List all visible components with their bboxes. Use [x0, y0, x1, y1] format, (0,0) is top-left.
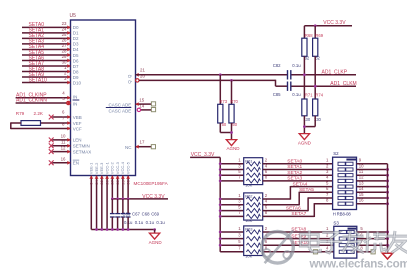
- pin 5 number (S2): [326, 180, 329, 185]
- pin 5 number (R63): [238, 239, 241, 244]
- pin 6 number (R63): [265, 239, 268, 244]
- pin VCC-3 name: [115, 161, 120, 174]
- wire S3 pin 6 to gnd bus: [357, 238, 388, 240]
- capacitor C85 label: [273, 92, 281, 97]
- svg-text:AGND: AGND: [298, 141, 312, 146]
- svg-text:NC: NC: [125, 145, 132, 150]
- pin 26 number (D3): [62, 38, 67, 43]
- pin 1 number (S2): [326, 158, 329, 163]
- pin 1 number (R61): [238, 158, 241, 163]
- junction VCC feed R62 p3: [219, 203, 222, 206]
- no-connect square (row4 left): [313, 250, 317, 254]
- pin 29 number: [120, 179, 125, 184]
- pin 14 CASCADE stub: [141, 109, 152, 111]
- pin 5 number (R61): [238, 169, 241, 174]
- wire VCC to R62 pin 5: [220, 210, 244, 212]
- resistor R73: [218, 104, 223, 123]
- svg-text:R68: R68: [305, 33, 313, 38]
- capacitor C85 value: [292, 92, 301, 97]
- op-amp U5 reference label: [70, 13, 77, 19]
- pin IN name: [73, 94, 78, 99]
- wire SETA1 to S2: [263, 169, 333, 171]
- svg-text:SETA5: SETA5: [299, 187, 314, 193]
- wire SETA4 staircase: [263, 186, 333, 200]
- resistor R74 label: [315, 93, 323, 98]
- wire SETA8 to S3: [263, 231, 334, 233]
- wire SETA10 net: [22, 82, 71, 84]
- svg-text:12: 12: [359, 175, 364, 180]
- pin 16 number: [61, 157, 66, 162]
- pin D1 marker: [67, 31, 70, 35]
- junction ground rail 2: [100, 228, 103, 231]
- junction VCC feed R62 p1: [219, 198, 222, 201]
- pin 16 number (S2): [359, 198, 364, 203]
- svg-text:R61: R61: [245, 158, 253, 163]
- wire VCC to R61 pin 7: [220, 180, 244, 182]
- svg-text:27: 27: [110, 179, 115, 184]
- svg-text:10K: 10K: [245, 218, 252, 223]
- svg-text:AD1_CLKM: AD1_CLKM: [330, 81, 356, 87]
- capacitor C68 label: [142, 211, 150, 216]
- node SETA3 label (S2): [287, 176, 302, 182]
- pin D7 name: [73, 64, 79, 69]
- pin Q name: [127, 74, 132, 78]
- wire VCC to R63 pin 5: [220, 244, 244, 246]
- pin 4 number (R62): [265, 199, 268, 204]
- pin Q marker: [136, 73, 139, 77]
- wire SETA1 net: [22, 32, 71, 34]
- svg-text:SETA4: SETA4: [293, 181, 308, 187]
- wire bottom pin VEE-2: [96, 176, 98, 230]
- junction gnd bus S3 p7: [386, 244, 389, 247]
- pin 11 SETMIN stub: [52, 145, 70, 147]
- svg-text:SETA6: SETA6: [286, 205, 301, 211]
- junction ground rail 7: [127, 228, 130, 231]
- pin 27 number: [110, 179, 115, 184]
- pin VCF marker: [67, 127, 70, 131]
- svg-text:D8: D8: [73, 69, 79, 74]
- pin 6 number (S3): [360, 232, 363, 237]
- pin 11 number (S2): [359, 169, 364, 174]
- ground AGND (R71/R74): [299, 134, 309, 140]
- pin 10 LEN stub: [52, 139, 70, 141]
- node AD1_CLKP label: [322, 69, 348, 75]
- pin 26 number: [104, 179, 109, 184]
- svg-text:29: 29: [120, 179, 125, 184]
- svg-text:28: 28: [62, 49, 67, 54]
- svg-text:R62: R62: [245, 194, 253, 199]
- pin 6 number (S2): [326, 186, 329, 191]
- pin 24 number: [94, 179, 99, 184]
- pin 29 number (D6): [62, 54, 67, 59]
- pin D4 marker: [67, 48, 70, 52]
- pin VCC-1 name: [104, 161, 109, 174]
- pin 3 number (R61): [238, 163, 241, 168]
- svg-text:S2: S2: [333, 151, 339, 156]
- resistor network R62 value: [245, 218, 252, 223]
- resistor R73 label: [219, 99, 227, 104]
- junction gnd bus S3 p5: [386, 231, 389, 234]
- svg-text:VBB: VBB: [73, 115, 82, 120]
- node SETA6 label: [29, 55, 45, 61]
- pin 13 number (S2): [359, 180, 364, 185]
- pin SETMAX name: [73, 149, 92, 154]
- svg-text:VCF: VCF: [73, 127, 82, 132]
- svg-text:EN: EN: [73, 161, 79, 166]
- junction gnd bus S2 p14: [386, 191, 389, 194]
- svg-text:CASC ADE: CASC ADE: [109, 102, 132, 107]
- wire R68-R71 column: [303, 56, 305, 99]
- resistor network R63 label: [245, 227, 253, 232]
- wire bottom pin VCC-5: [127, 176, 129, 199]
- pin D6 name: [73, 58, 79, 63]
- ground AGND label (R73/R70): [227, 146, 241, 151]
- junction VCC rail 4: [111, 198, 114, 201]
- junction CLKM column B: [314, 85, 317, 88]
- resistor R70: [229, 104, 234, 123]
- capacitor C67 value: [135, 220, 144, 225]
- svg-text:28: 28: [115, 179, 120, 184]
- pin 10 number (S2): [359, 163, 364, 168]
- junction VCC feed R63 p3: [219, 237, 222, 240]
- pin 4 number (R61): [265, 163, 268, 168]
- pin 3 number (S3): [326, 239, 329, 244]
- svg-text:AGND: AGND: [227, 146, 241, 151]
- node SETA2 label (S2): [287, 170, 302, 176]
- pin 30 number: [126, 179, 131, 184]
- pin 9 number: [89, 182, 94, 185]
- wire AD1_CLKP after C82: [292, 74, 357, 76]
- wire AD1_CLKP from pin 21 to C82: [136, 74, 288, 76]
- pin 25 number: [99, 179, 104, 184]
- svg-text:R71: R71: [305, 93, 313, 98]
- pin 5 number: [62, 96, 65, 101]
- wire S2 pin 9 to gnd bus: [357, 163, 388, 165]
- pin VEE-3 marker: [100, 176, 104, 179]
- wire SETA7 staircase: [263, 203, 333, 217]
- wire ground bus: [387, 164, 389, 253]
- node SETA6 label: [286, 205, 301, 211]
- ground AGND (R73/R70): [226, 140, 236, 146]
- svg-text:82: 82: [305, 55, 310, 60]
- ground AGND label (chip): [149, 240, 163, 245]
- resistor R74: [313, 99, 318, 116]
- decorative watermark: [262, 230, 407, 270]
- ground GND (bus): [382, 253, 392, 259]
- pin NC marker: [136, 145, 139, 149]
- node SETA0 label: [29, 22, 45, 28]
- wire AD1_CLKM after C85: [292, 85, 357, 87]
- junction ground rail agnd: [153, 228, 156, 231]
- svg-text:AD1_CLKP: AD1_CLKP: [322, 69, 348, 75]
- wire bottom pin VCC-2: [111, 176, 113, 199]
- inversion bubble pin 14: [137, 108, 140, 111]
- pin 2 number (S2): [326, 163, 329, 168]
- pin 1 number (R63): [238, 226, 241, 231]
- pin 14 number: [139, 104, 144, 109]
- pin D10 name: [73, 80, 82, 85]
- wire VCC to R62 pin 7: [220, 215, 244, 217]
- pin 1 number (D8): [64, 65, 67, 70]
- no-connect square pin 14: [151, 108, 155, 112]
- svg-text:15: 15: [139, 98, 144, 103]
- wire bottom pin VCC-4: [122, 176, 124, 199]
- capacitor C67: [115, 199, 120, 230]
- wire SETA2 to S2: [263, 174, 333, 176]
- pin 23 number (D0): [62, 21, 67, 26]
- wire R69-R74 column: [314, 56, 316, 99]
- pin 7 number (R61): [238, 175, 241, 180]
- pin D2 name: [73, 36, 79, 41]
- wire AD1_CLKM from pin 20: [139, 80, 287, 87]
- svg-text:0.1u: 0.1u: [135, 220, 144, 225]
- pin VEE-2 name: [94, 162, 99, 174]
- pin VCC-4 name: [120, 161, 125, 174]
- pin 8 number (S2): [326, 198, 329, 203]
- connector S2 label: [333, 151, 339, 156]
- svg-text:13: 13: [359, 180, 364, 185]
- no-connect square (S3 right): [371, 250, 375, 254]
- wire VCC to R61 pin 1: [220, 163, 244, 165]
- pin 15 number (S2): [359, 192, 364, 197]
- pin 3 number (R62): [238, 199, 241, 204]
- capacitor C66 label: [122, 211, 130, 216]
- node SETA9 label: [29, 72, 45, 78]
- svg-text:C85: C85: [273, 92, 281, 97]
- resistor R79 value: [34, 111, 44, 116]
- pin VCC-2 name: [110, 161, 115, 174]
- pin 7 number: [62, 116, 65, 121]
- pin 15 CASCADE stub: [136, 103, 152, 105]
- pin 3 number (S2): [326, 169, 329, 174]
- node SETA7 label: [291, 211, 306, 217]
- wire S2 pin 16 to gnd bus: [357, 203, 388, 205]
- svg-text:14: 14: [359, 186, 364, 191]
- ground AGND (chip): [149, 233, 159, 239]
- node SETA1 label: [29, 28, 45, 34]
- svg-text:50: 50: [222, 122, 227, 127]
- wire AD1_CLKINP net: [16, 97, 71, 99]
- pin 12 SETMAX stub: [52, 151, 70, 153]
- svg-text:VCC-3: VCC-3: [115, 161, 120, 174]
- capacitor C82: [288, 70, 291, 79]
- pin D5 marker: [67, 53, 70, 57]
- resistor R79 label: [16, 111, 25, 116]
- junction VCC feed R63 p1: [219, 231, 222, 234]
- junction VCC feed R61 p1: [219, 162, 222, 165]
- wire SETA7 net: [22, 65, 71, 67]
- svg-text:30: 30: [126, 179, 131, 184]
- pin VCC-4 marker: [121, 176, 125, 179]
- power VCC 3.3V label (chip): [142, 194, 165, 200]
- power VCC 3.3V rail (chip): [112, 198, 168, 200]
- pin D3 marker: [67, 42, 70, 46]
- svg-text:24: 24: [62, 27, 67, 32]
- svg-text:LEN: LEN: [73, 138, 82, 143]
- node AD1_CLKINP label: [16, 92, 47, 98]
- pin D8 name: [73, 69, 79, 74]
- svg-text:0.1u: 0.1u: [292, 63, 301, 68]
- wire S2 pin 10 to gnd bus: [357, 169, 388, 171]
- svg-text:10K: 10K: [245, 253, 252, 258]
- ground AGND stub (chip): [154, 230, 156, 234]
- connector S3 label: [333, 221, 339, 226]
- svg-text:C82: C82: [273, 63, 281, 68]
- wire SETA3 net: [22, 43, 71, 45]
- svg-text:29: 29: [62, 54, 67, 59]
- svg-text:R69: R69: [315, 33, 323, 38]
- capacitor C82 value: [292, 63, 301, 68]
- svg-text:11: 11: [61, 140, 66, 145]
- pin 8 number (S3): [360, 246, 363, 251]
- connector S3: [334, 226, 357, 258]
- pin 15 number: [139, 98, 144, 103]
- svg-text:25: 25: [62, 32, 67, 37]
- resistor R70 label: [230, 99, 238, 104]
- node SETA5 label: [299, 187, 314, 193]
- capacitor C66 value: [124, 220, 133, 225]
- svg-text:VCC-5: VCC-5: [125, 161, 130, 174]
- pin VCC-2 marker: [110, 176, 114, 179]
- pin 14 number (S2): [359, 186, 364, 191]
- pin 4 number (R63): [265, 232, 268, 237]
- pin 17 NC stub: [136, 146, 152, 148]
- svg-text:C67: C67: [132, 211, 140, 216]
- wire VCC to R63 pin 1: [220, 231, 244, 233]
- node SETA9 label: [291, 233, 306, 239]
- pin SETMIN name: [73, 144, 90, 149]
- pin 17 number: [140, 139, 145, 144]
- pin 6 VBB stub: [52, 116, 70, 118]
- no-connect X pin 16: [49, 160, 54, 165]
- resistor R68: [302, 38, 307, 56]
- pin 7 number (R62): [238, 210, 241, 215]
- svg-text:10: 10: [359, 163, 364, 168]
- resistor network R61 value: [245, 183, 252, 188]
- wire VCC to R61 pin 5: [220, 174, 244, 176]
- connector S2: [333, 157, 357, 209]
- svg-text:D1: D1: [73, 31, 79, 36]
- svg-text:0.1u: 0.1u: [292, 92, 301, 97]
- svg-text:CASC ADE: CASC ADE: [109, 108, 132, 113]
- pin 1 number (R62): [238, 193, 241, 198]
- pin VEE-2 marker: [95, 176, 99, 179]
- pin D7 marker: [67, 64, 70, 68]
- wire R74 bottom: [304, 116, 315, 127]
- pin D1 name: [73, 31, 79, 36]
- junction ground rail 5: [116, 228, 119, 231]
- svg-text:27: 27: [62, 43, 67, 48]
- node SETA10 label: [291, 240, 309, 246]
- connector S2 part number: [333, 211, 352, 216]
- no-connect square pin 15: [151, 102, 155, 106]
- svg-text:26: 26: [104, 179, 109, 184]
- pin VCF name: [73, 127, 82, 132]
- wire R68 top: [303, 26, 305, 38]
- junction ground rail 6: [121, 228, 124, 231]
- pin 6 number: [62, 110, 65, 115]
- pin D5 name: [73, 53, 79, 58]
- wire VCC to R61 pin 3: [220, 169, 244, 171]
- resistor R74 value: [314, 117, 322, 122]
- pin 27 number (D4): [62, 43, 67, 48]
- resistor network R61: [244, 158, 263, 185]
- node SETA4 label: [29, 44, 45, 50]
- pin EN name: [73, 160, 79, 166]
- svg-text:SETA2: SETA2: [287, 170, 302, 176]
- wire VCC to R62 pin 3: [220, 204, 244, 206]
- svg-text:D4: D4: [73, 47, 79, 52]
- wire S3 pin 7 to gnd bus: [357, 244, 388, 246]
- wire bottom pin VEE-3: [101, 176, 103, 230]
- svg-text:24: 24: [94, 179, 99, 184]
- pin 8 number (R63): [265, 246, 268, 251]
- pin 4 number (S3): [326, 246, 329, 251]
- capacitor C66: [110, 199, 115, 230]
- svg-text:S3: S3: [333, 221, 339, 226]
- pin 2 number (D9): [64, 71, 67, 76]
- junction R71-R74 join: [303, 125, 306, 128]
- junction VCC feed R62 p5: [219, 209, 222, 212]
- wire bottom pin VCC-1: [106, 176, 108, 230]
- node SETA1 label (S2): [287, 164, 302, 170]
- capacitor C68: [120, 199, 125, 230]
- wire S2 pin 12 to gnd bus: [357, 180, 388, 182]
- resistor R70 value: [232, 122, 237, 127]
- svg-text:50: 50: [232, 122, 237, 127]
- power VCC_3.3V label (lower): [191, 152, 215, 158]
- svg-text:82: 82: [315, 55, 320, 60]
- svg-text:25: 25: [99, 179, 104, 184]
- svg-text:MC100EP195FA: MC100EP195FA: [134, 181, 169, 186]
- wire R79 to pin 7 VEF: [41, 122, 71, 124]
- pin 3 number (D10): [64, 76, 67, 81]
- svg-text:SETA0: SETA0: [287, 159, 302, 165]
- pin 28 number (D5): [62, 49, 67, 54]
- pin VEF marker: [67, 121, 70, 125]
- resistor network R63: [244, 226, 263, 256]
- node SETA7 label: [29, 61, 45, 67]
- no-connect X pin 11: [49, 143, 54, 148]
- power VCC 3.3V label (top): [323, 20, 346, 26]
- svg-text:30: 30: [62, 60, 67, 65]
- pin 5 number (S3): [360, 226, 363, 231]
- svg-text:R63: R63: [245, 227, 253, 232]
- pin 8 number (R61): [265, 175, 268, 180]
- svg-text:SETMAX: SETMAX: [73, 149, 92, 154]
- svg-text:12: 12: [61, 145, 66, 150]
- junction CLKP column A: [303, 73, 306, 76]
- resistor R71 label: [305, 93, 313, 98]
- pin 6 number (R61): [265, 169, 268, 174]
- pin 16 EN stub: [52, 162, 70, 164]
- pin VEF name: [73, 121, 82, 126]
- wire SETA9 net: [22, 76, 71, 78]
- svg-text:D0: D0: [73, 25, 79, 30]
- pin D4 name: [73, 47, 79, 52]
- pin LEN name: [73, 138, 82, 143]
- resistor R69 label: [315, 33, 323, 38]
- svg-text:www.elecfans.com: www.elecfans.com: [309, 258, 407, 271]
- pin VEE-3 name: [99, 162, 104, 174]
- pin 1 number (S3): [326, 226, 329, 231]
- svg-text:VEE-3: VEE-3: [99, 162, 104, 174]
- wire SETA2 net: [22, 37, 71, 39]
- pin EN marker: [67, 161, 70, 165]
- node AD1_CLKINN label: [16, 98, 47, 104]
- junction R70 tap: [230, 79, 233, 82]
- svg-text:IN: IN: [73, 94, 78, 99]
